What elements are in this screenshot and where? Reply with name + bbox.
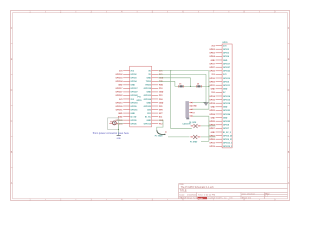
- svg-text:Q1_BC8: Q1_BC8: [189, 122, 196, 124]
- svg-text:GPIO10: GPIO10: [130, 102, 138, 104]
- svg-text:GND: GND: [211, 89, 216, 91]
- svg-text:GPIO02: GPIO02: [116, 74, 123, 76]
- svg-text:GPIO8: GPIO8: [223, 125, 230, 127]
- svg-text:GPI13: GPI13: [209, 143, 214, 145]
- svg-text:GPIO25: GPIO25: [223, 121, 231, 123]
- svg-text:GPIO17: GPIO17: [223, 63, 230, 65]
- svg-text:GPIO7: GPIO7: [223, 128, 229, 130]
- svg-text:GPI14: GPI14: [209, 95, 215, 98]
- svg-text:3V3: 3V3: [223, 45, 226, 47]
- svg-text:1.1: 1.1: [265, 195, 268, 197]
- svg-text:GND: GND: [223, 107, 228, 109]
- svg-text:GPIO12: GPIO12: [144, 123, 152, 125]
- svg-text:GPIO6: GPIO6: [130, 123, 137, 125]
- svg-text:GPI11: GPI11: [210, 85, 215, 87]
- svg-text:P18: P18: [159, 88, 162, 90]
- svg-text:GPIO15: GPIO15: [223, 99, 231, 101]
- svg-text:GND: GND: [146, 102, 151, 104]
- svg-text:GPIO27: GPIO27: [130, 92, 138, 94]
- svg-text:GND: GND: [159, 92, 164, 94]
- svg-text:3V3: 3V3: [119, 99, 122, 101]
- svg-text:GPI24: GPI24: [209, 113, 215, 116]
- svg-text:GND: GND: [223, 60, 228, 62]
- svg-text:D2: D2: [197, 83, 199, 85]
- svg-text:GPIO13_3: GPIO13_3: [223, 143, 232, 145]
- svg-text:GPIO10: GPIO10: [223, 78, 230, 80]
- svg-text:GPIO2: GPIO2: [130, 74, 137, 76]
- svg-text:GPI19: GPI19: [209, 146, 214, 148]
- svg-text:GPI17: GPI17: [209, 63, 214, 65]
- svg-text:GPIO18: GPIO18: [223, 103, 231, 105]
- svg-text:GPI02: GPI02: [209, 49, 214, 51]
- svg-text:3V3: 3V3: [211, 45, 214, 47]
- svg-text:5mm power connector goes here: 5mm power connector goes here: [93, 132, 130, 135]
- svg-text:GPI23: GPI23: [209, 110, 214, 112]
- svg-text:GPIO5_29: GPIO5_29: [223, 135, 232, 137]
- svg-text:GPIO22: GPIO22: [116, 95, 123, 97]
- svg-text:GPIO22: GPIO22: [223, 71, 230, 73]
- svg-text:GPIO03: GPIO03: [116, 78, 123, 80]
- svg-text:ID_SD: ID_SD: [130, 116, 136, 118]
- svg-text:3V3: 3V3: [119, 71, 122, 73]
- svg-text:GND: GND: [211, 117, 216, 119]
- svg-text:SP8: SP8: [159, 109, 163, 111]
- svg-text:GND: GND: [118, 85, 123, 87]
- svg-text:RXD: RXD: [159, 85, 164, 87]
- svg-text:GPIO2: GPIO2: [223, 49, 229, 51]
- svg-text:GPIO17: GPIO17: [116, 88, 123, 90]
- svg-text:GPIO23: GPIO23: [144, 95, 152, 97]
- svg-text:GPIO: GPIO: [222, 42, 228, 44]
- svg-text:GPIO4: GPIO4: [223, 55, 230, 58]
- svg-text:GPI07: GPI07: [209, 128, 214, 130]
- svg-text:GND: GND: [117, 138, 122, 140]
- svg-text:GPI15: GPI15: [209, 99, 214, 101]
- svg-text:GND: GND: [223, 89, 228, 91]
- svg-text:GND: GND: [130, 113, 135, 115]
- svg-text:GPI25: GPI25: [209, 121, 214, 123]
- svg-text:GPIO9: GPIO9: [130, 106, 137, 108]
- svg-text:GND: GND: [146, 120, 151, 122]
- svg-text:GPIO11: GPIO11: [130, 109, 138, 111]
- svg-text:GPIO25: GPIO25: [144, 106, 152, 108]
- svg-text:GND: GND: [130, 85, 135, 87]
- svg-text:GPIO3: GPIO3: [130, 78, 137, 80]
- svg-text:EAGLE Draw 7.2.0: EAGLE Draw 7.2.0: [180, 196, 198, 199]
- svg-text:P25: P25: [159, 106, 162, 108]
- svg-text:GPIO27: GPIO27: [223, 67, 230, 69]
- svg-text:GPI04: GPI04: [209, 55, 215, 58]
- svg-text:GPIO17: GPIO17: [130, 88, 138, 90]
- svg-text:GPI22: GPI22: [209, 71, 214, 73]
- svg-text:GND: GND: [146, 92, 151, 94]
- svg-text:GPI03: GPI03: [209, 53, 214, 55]
- svg-text:5V0: 5V0: [211, 92, 214, 94]
- svg-text:GPI18: GPI18: [209, 103, 214, 105]
- svg-text:Date: 1/11/2014: Date: 1/11/2014: [242, 192, 255, 195]
- svg-text:GPIO24: GPIO24: [223, 113, 231, 116]
- svg-text:Time: 2:02:11 PM: Time: 2:02:11 PM: [198, 194, 215, 196]
- svg-text:GPIO10: GPIO10: [116, 102, 123, 104]
- svg-text:3V3: 3V3: [211, 74, 214, 76]
- svg-text:GPI10: GPI10: [209, 78, 214, 80]
- svg-text:GND: GND: [146, 78, 151, 80]
- svg-text:SP7: SP7: [159, 113, 163, 115]
- svg-text:The PI GPIO Schematic 1.1.sch: The PI GPIO Schematic 1.1.sch: [181, 186, 215, 189]
- svg-text:PI_STAT: PI_STAT: [190, 141, 198, 144]
- svg-text:ID_SC: ID_SC: [145, 116, 151, 118]
- svg-text:GND: GND: [211, 60, 216, 62]
- svg-text:GPIO09: GPIO09: [116, 106, 123, 108]
- svg-text:GPIO14: GPIO14: [223, 95, 231, 98]
- svg-text:GPIO5: GPIO5: [130, 120, 137, 122]
- svg-text:GND: GND: [211, 132, 216, 134]
- svg-text:Date:: Date:: [180, 193, 186, 196]
- svg-text:D1: D1: [179, 83, 181, 85]
- svg-text:GND: GND: [118, 113, 123, 115]
- svg-text:GND: GND: [211, 107, 216, 109]
- svg-text:GPIO04: GPIO04: [116, 80, 124, 83]
- svg-text:1/11/2014: 1/11/2014: [187, 194, 197, 196]
- svg-text:P12: P12: [159, 123, 162, 125]
- svg-text:GPIO9: GPIO9: [223, 81, 229, 83]
- svg-text:GPIO22: GPIO22: [130, 95, 138, 97]
- svg-text:KG: KG: [230, 197, 233, 199]
- svg-text:GPI08: GPI08: [209, 125, 214, 127]
- svg-text:GND: GND: [223, 117, 228, 119]
- svg-text:GPIO3: GPIO3: [223, 53, 229, 55]
- svg-text:P23: P23: [159, 95, 162, 97]
- svg-text:PI_TXD0: PI_TXD0: [155, 135, 163, 137]
- svg-text:Sheet: 1/1: Sheet: 1/1: [242, 196, 252, 199]
- svg-text:GPIO11: GPIO11: [116, 109, 123, 111]
- svg-text:TITLE:: TITLE:: [180, 190, 188, 193]
- svg-text:RXD0: RXD0: [146, 85, 152, 87]
- svg-text:GPIO18: GPIO18: [144, 88, 152, 90]
- svg-text:GPIO24: GPIO24: [144, 98, 152, 101]
- svg-text:GPIO23: GPIO23: [223, 110, 230, 112]
- svg-text:GPIO27: GPIO27: [116, 92, 123, 94]
- svg-text:GND: GND: [159, 102, 164, 104]
- svg-text:GPIO4: GPIO4: [130, 80, 137, 83]
- svg-text:GPIO6_31: GPIO6_31: [223, 139, 233, 141]
- svg-text:GPIO19_3: GPIO19_3: [223, 146, 232, 148]
- svg-text:GPIO11: GPIO11: [223, 85, 231, 87]
- svg-text:GPI09: GPI09: [209, 81, 214, 83]
- svg-text:CadSoft GmbH + Co: CadSoft GmbH + Co: [208, 196, 227, 199]
- svg-text:GPI27: GPI27: [209, 67, 214, 69]
- svg-text:3V3: 3V3: [223, 74, 226, 76]
- svg-text:ID_SC_2: ID_SC_2: [223, 132, 231, 134]
- svg-text:TXD0: TXD0: [146, 81, 152, 83]
- svg-text:GPI06: GPI06: [209, 139, 214, 141]
